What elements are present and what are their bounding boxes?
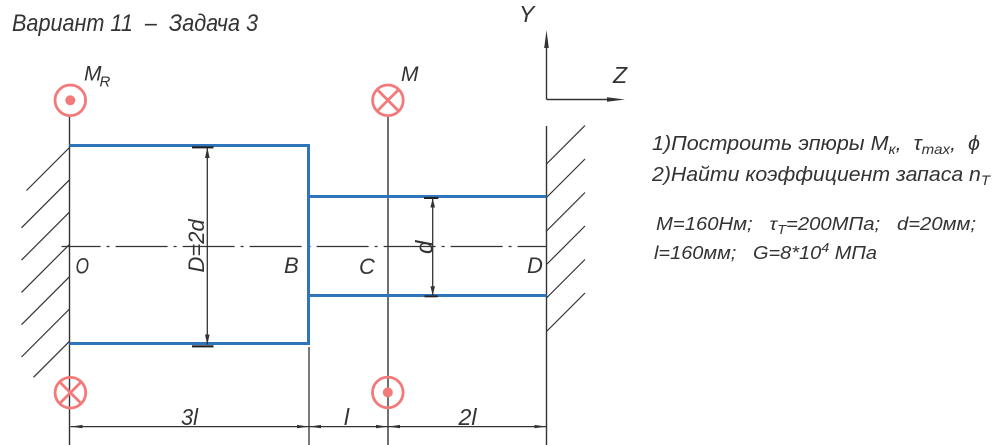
svg-text:d: d — [412, 240, 439, 254]
centerline — [62, 246, 547, 248]
wall right vertical line — [546, 126, 548, 445]
node O — [76, 254, 90, 279]
svg-text:D: D — [527, 253, 543, 278]
svg-text:B: B — [284, 253, 299, 278]
dimension line bottom — [71, 425, 547, 428]
dimension d — [412, 197, 439, 297]
shaft small section outline — [307, 197, 547, 296]
wire B extension line — [308, 347, 310, 445]
given data line 1 — [656, 214, 976, 237]
wall hatching left — [22, 148, 70, 378]
svg-text:O: O — [76, 254, 90, 279]
task text line 1 — [652, 133, 980, 157]
svg-text:2)Найти коэффициент запаса nT: 2)Найти коэффициент запаса nT — [651, 164, 992, 188]
shaft large section outline — [70, 144, 311, 345]
dimension D=2d — [184, 146, 214, 347]
svg-text:3l: 3l — [181, 404, 199, 430]
node B — [284, 253, 299, 278]
moment symbol bottom center (circle with dot) — [373, 377, 404, 408]
svg-text:2l: 2l — [457, 404, 477, 430]
svg-text:l=160мм; G=8*104 МПа: l=160мм; G=8*104 МПа — [654, 240, 877, 263]
svg-text:M: M — [401, 63, 419, 86]
svg-text:C: C — [359, 254, 375, 279]
label l — [344, 404, 350, 430]
node D — [527, 253, 543, 278]
moment symbol M_R (circle with dot) — [55, 85, 86, 116]
node C — [359, 254, 375, 279]
task text line 2 — [651, 164, 992, 188]
title — [12, 10, 259, 37]
svg-text:D=2d: D=2d — [184, 219, 209, 273]
wire O vertical line — [69, 117, 71, 445]
wire C vertical line — [387, 117, 389, 445]
label 2l — [457, 404, 477, 430]
wall hatching right — [547, 126, 586, 332]
moment symbol bottom left (circle with cross) — [55, 377, 86, 408]
svg-text:Z: Z — [612, 62, 628, 88]
svg-text:l: l — [344, 404, 350, 430]
axis Y — [519, 1, 549, 100]
moment symbol M (circle with cross) — [373, 85, 404, 116]
svg-text:Вариант 11 – Задача 3: Вариант 11 – Задача 3 — [12, 10, 259, 37]
label M_R — [84, 63, 111, 91]
label 3l — [181, 404, 199, 430]
axis Z — [547, 62, 629, 102]
svg-text:Y: Y — [519, 1, 536, 27]
label M — [401, 63, 419, 86]
svg-text:M=160Нм; τT=200МПа; d=20мм: M=160Нм; τT=200МПа; d=20мм; — [656, 214, 976, 237]
given data line 2 — [654, 240, 877, 263]
